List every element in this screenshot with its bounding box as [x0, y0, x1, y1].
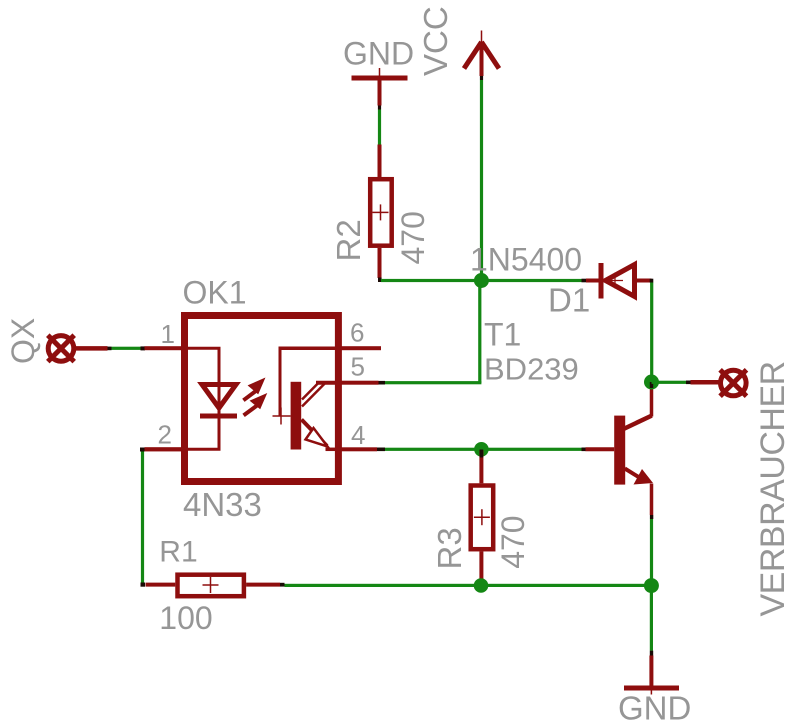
junction dot VCC node: [474, 273, 489, 288]
transistor T1: [586, 384, 654, 515]
svg-text:6: 6: [350, 318, 364, 348]
junction dot R3 bottom: [474, 578, 489, 593]
svg-text:GND: GND: [618, 690, 691, 726]
svg-text:470: 470: [495, 515, 531, 568]
wire emitter to ground junction: [650, 515, 653, 519]
svg-text:2: 2: [158, 420, 172, 450]
OK1 light arrow 2: [244, 394, 267, 415]
svg-text:1N5400: 1N5400: [470, 242, 582, 278]
svg-text:5: 5: [351, 352, 365, 382]
wire pin4 net: [385, 448, 582, 451]
svg-text:T1: T1: [484, 317, 521, 353]
wire VCC stem: [480, 76, 483, 80]
pin 1 wire: [145, 346, 186, 350]
junction dot base node: [474, 442, 489, 457]
svg-text:OK1: OK1: [183, 275, 247, 311]
svg-text:D1: D1: [548, 281, 590, 318]
OK1 light arrow 1: [243, 379, 264, 401]
supply symbol VCC: [464, 31, 499, 77]
svg-text:470: 470: [395, 211, 431, 264]
wire R2 to junction: [378, 278, 382, 283]
pin 5 wire: [340, 381, 379, 385]
OK1 internal LED: [185, 348, 237, 449]
svg-text:R3: R3: [431, 527, 468, 569]
resistor R2: [370, 145, 392, 279]
svg-text:GND: GND: [343, 36, 414, 72]
ground symbol GND bottom: [624, 656, 679, 695]
wire diode to output node: [650, 279, 654, 283]
resistor R1: [146, 575, 281, 597]
junction dot ground node: [644, 578, 659, 593]
pin VERBRAUCHER symbol: [691, 370, 747, 396]
wire ground node to GND symbol: [650, 586, 653, 651]
svg-text:4: 4: [351, 420, 365, 450]
wire GND to R2: [378, 106, 381, 110]
svg-text:QX: QX: [5, 318, 41, 364]
svg-text:4N33: 4N33: [183, 486, 262, 523]
pin QX symbol: [48, 335, 108, 361]
wire junction to diode: [481, 279, 582, 282]
diode D1: [586, 263, 652, 299]
wire pin1 net QX: [108, 347, 112, 351]
OK1 phototransistor: [273, 347, 341, 450]
wire collector node to output pin: [652, 381, 687, 384]
svg-text:R2: R2: [330, 219, 367, 261]
wire R1 to ground junction: [285, 584, 652, 587]
wire pin5 net: [385, 381, 481, 384]
pin 2 wire: [145, 447, 186, 451]
svg-text:VERBRAUCHER: VERBRAUCHER: [754, 361, 788, 616]
svg-text:BD239: BD239: [484, 351, 579, 386]
junction dot collector node: [644, 375, 659, 390]
svg-text:R1: R1: [159, 536, 197, 569]
svg-text:VCC: VCC: [417, 6, 454, 76]
ground symbol GND top: [352, 68, 408, 106]
resistor R3: [471, 450, 494, 579]
svg-text:1: 1: [161, 319, 175, 349]
wire pin2 net to R1: [140, 448, 145, 452]
pin 4 wire: [340, 447, 377, 451]
optocoupler OK1 box: [185, 316, 339, 482]
pin 6 wire: [340, 346, 381, 350]
svg-text:100: 100: [159, 600, 212, 636]
